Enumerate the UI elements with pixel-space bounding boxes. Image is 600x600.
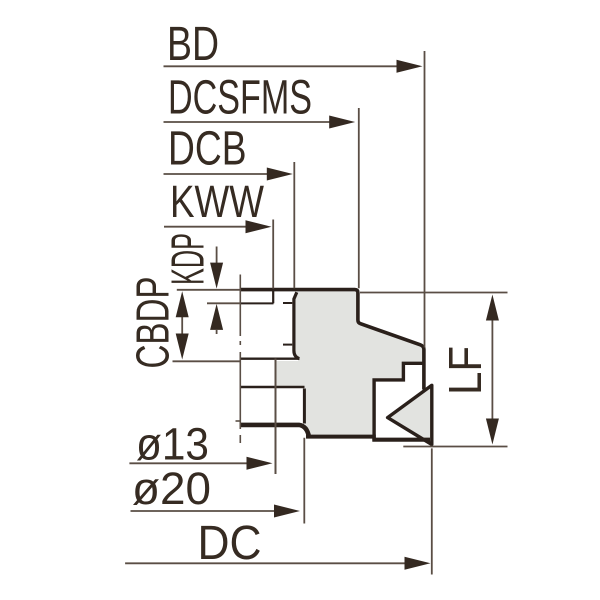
BD extension [424, 51, 426, 348]
bore step line [241, 386, 305, 388]
cutter body gray fill [277, 292, 424, 438]
tick 2 [283, 344, 292, 346]
dia13 extension [275, 359, 277, 475]
svg-text:LF: LF [439, 346, 491, 395]
recess wall [303, 389, 306, 424]
insert outline [388, 385, 432, 444]
counterbore bottom [241, 358, 300, 360]
bottom face right (rim) [306, 435, 376, 439]
svg-text:BD: BD [167, 18, 219, 71]
centerline [239, 275, 241, 444]
KWW extension [272, 220, 274, 289]
counterbore wall with chamfer and fillet [294, 292, 299, 359]
insert triangle fill [388, 385, 432, 444]
svg-text:DCB: DCB [168, 122, 247, 175]
LF top extension [360, 292, 508, 294]
KDP bottom extension [207, 302, 241, 304]
svg-text:KWW: KWW [170, 176, 264, 227]
keyway edge [272, 290, 274, 304]
pocket bottom under insert [372, 438, 430, 442]
keyway bottom [241, 302, 274, 304]
BD dim line [164, 65, 401, 67]
dia13 dim line [129, 462, 250, 464]
bottom shelf left with corner [241, 425, 310, 437]
KDP top extension [177, 289, 241, 291]
body outline: top face, right edge, diagonal [241, 290, 424, 390]
DC dim line [125, 562, 408, 564]
svg-text:DC: DC [198, 517, 262, 570]
DCSFMS extension [358, 108, 360, 288]
CBDP dim line [181, 310, 183, 345]
DCB extension [293, 162, 295, 288]
DCB dim line [164, 173, 271, 175]
stub extension at shelf [236, 420, 241, 422]
svg-text:DCSFMS: DCSFMS [168, 72, 312, 125]
LF dim line [491, 318, 493, 421]
insert pocket steps [374, 363, 424, 440]
CBDP bottom extension [173, 360, 241, 362]
KWW dim line [164, 226, 248, 228]
dia20 dim line [131, 510, 278, 512]
LF bottom extension [403, 446, 507, 448]
DC extension [431, 448, 433, 574]
tick 1 [283, 302, 292, 304]
KDP dim arrows [216, 247, 218, 335]
DCSFMS dim line [164, 121, 333, 123]
dia20 extension [303, 438, 305, 524]
svg-text:CBDP: CBDP [127, 277, 179, 369]
svg-text:ø20: ø20 [132, 463, 211, 514]
